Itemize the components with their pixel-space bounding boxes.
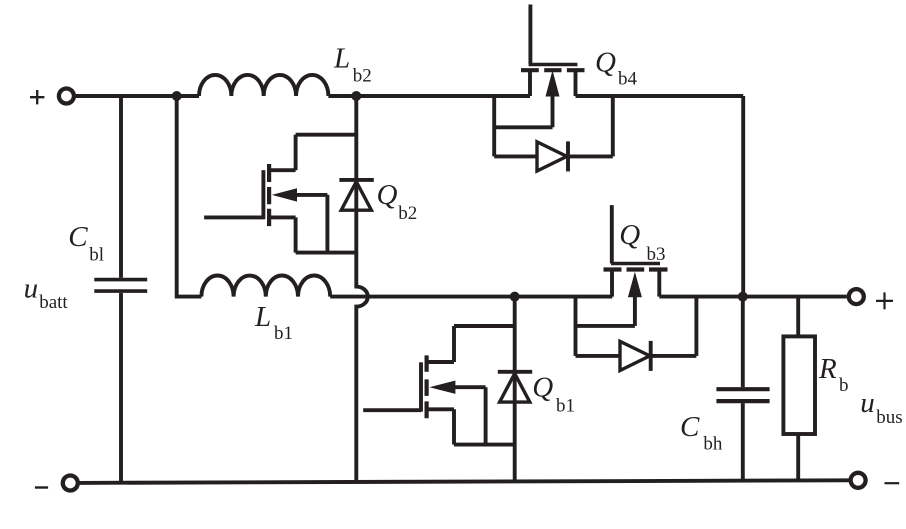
wire (Qb2 leg with hop over Lb1 wire) (356, 96, 368, 482)
wire (743, 295, 847, 299)
svg-text:R: R (818, 353, 837, 385)
label + (output positive) (876, 292, 893, 309)
terminal T4 (- output, bottom-right) (851, 473, 866, 488)
svg-text:bl: bl (89, 244, 104, 265)
wire (576, 94, 744, 98)
capacitor Cbh (716, 297, 769, 481)
node N1 (172, 91, 182, 101)
body diode of Qb2 (339, 180, 373, 210)
node N3 (510, 292, 520, 302)
wire (515, 295, 613, 299)
mosfet Qb3 (576, 205, 668, 356)
svg-text:batt: batt (39, 292, 68, 313)
label - (output negative) (885, 482, 900, 484)
mosfet Qb4 (494, 5, 584, 157)
body diode of Qb4 (537, 96, 613, 171)
svg-text:u: u (24, 273, 38, 305)
mosfet Qb1 (363, 326, 515, 445)
svg-text:C: C (68, 221, 88, 253)
mosfet Qb2 (204, 135, 356, 253)
label - (input negative) (35, 486, 48, 488)
svg-text:b1: b1 (556, 396, 575, 417)
resistor Rb (783, 297, 815, 481)
terminal T1 (+ input, top-left) (59, 89, 74, 104)
inductor Lb2 (199, 75, 328, 96)
capacitor Cbl (94, 96, 147, 483)
svg-text:b2: b2 (398, 203, 417, 224)
svg-text:C: C (680, 411, 700, 443)
wire (659, 295, 743, 299)
inductor Lb1 (201, 276, 330, 297)
label + (input positive) (30, 90, 44, 104)
svg-text:L: L (254, 301, 271, 333)
svg-text:Q: Q (377, 179, 398, 211)
svg-text:b: b (839, 375, 849, 396)
node N4 (738, 292, 748, 302)
svg-text:bus: bus (876, 407, 902, 428)
svg-text:bh: bh (703, 433, 723, 454)
terminal T3 (- input, bottom-left) (63, 476, 78, 491)
terminal T2 (+ output, right) (849, 289, 864, 304)
svg-text:b3: b3 (647, 244, 666, 265)
svg-text:b4: b4 (618, 69, 638, 90)
wire (right branch down from Qb4) (741, 96, 745, 297)
svg-text:Q: Q (532, 372, 553, 404)
svg-text:b1: b1 (274, 323, 293, 344)
wire (Qb1 leg) (513, 297, 517, 482)
svg-text:b2: b2 (353, 66, 372, 87)
wire (76, 94, 199, 98)
body diode of Qb3 (620, 297, 696, 371)
svg-text:L: L (333, 43, 350, 75)
svg-text:u: u (860, 387, 875, 419)
body diode of Qb1 (498, 372, 532, 402)
wire (bottom rail) (80, 480, 849, 483)
svg-text:Q: Q (619, 219, 640, 251)
node N2 (Lb2 output) (351, 91, 361, 101)
svg-text:Q: Q (595, 47, 616, 79)
wire (328, 94, 530, 98)
wire (mid rail) (330, 295, 515, 299)
wire (branch down to Lb1) (177, 96, 202, 297)
